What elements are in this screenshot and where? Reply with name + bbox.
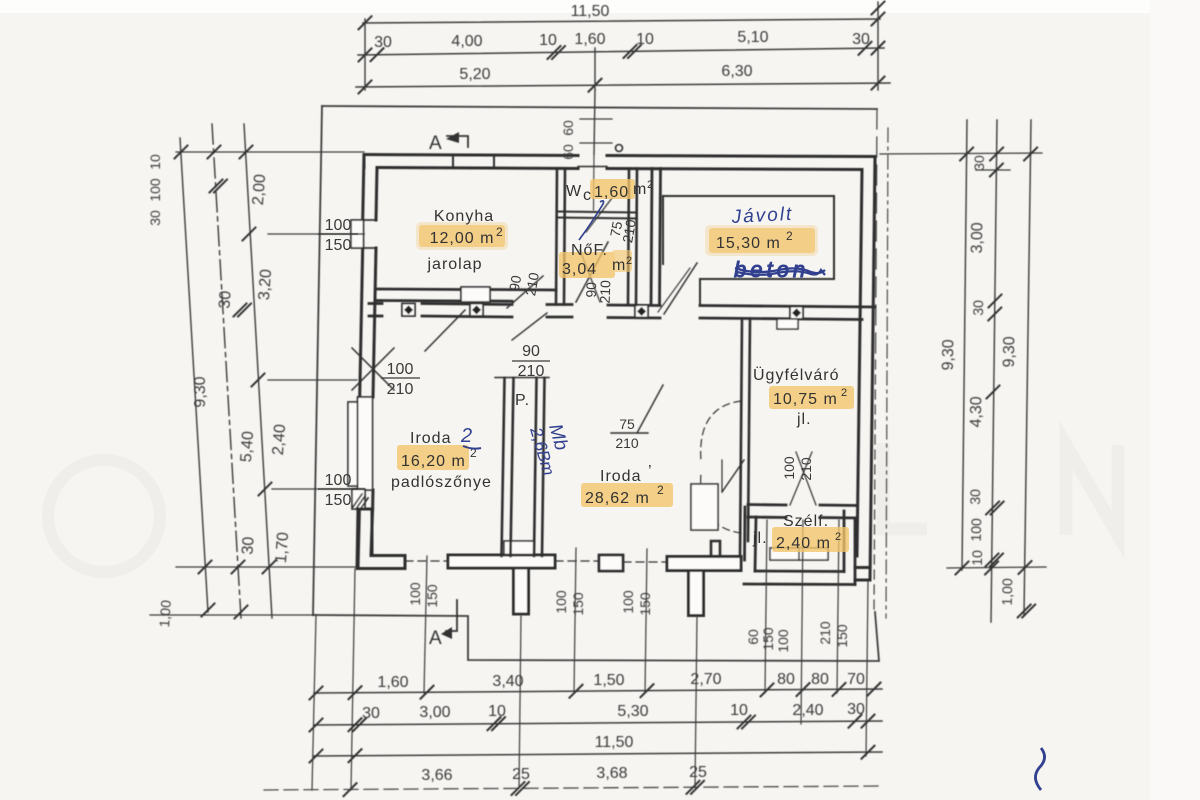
right dim block line R1: [962, 120, 967, 570]
svg-text:3,00: 3,00: [419, 704, 450, 721]
extension lines to bottom rows: [312, 520, 868, 790]
left ticks: [175, 146, 188, 159]
ugyfelvaro door swing lines bottom: [790, 452, 812, 505]
watermark letter L: [883, 443, 927, 529]
bottom dim row 3: [314, 752, 882, 756]
svg-text:1,60: 1,60: [594, 184, 629, 201]
ugyfelvaro door swing triangle: [722, 460, 744, 492]
room 15,30 left wall band: [651, 169, 661, 306]
svg-text:c: c: [583, 187, 592, 204]
chimney square 1: [402, 304, 415, 317]
svg-text:210: 210: [817, 621, 833, 645]
wall V6 (middle/ugyfelvaro wall): [740, 319, 750, 557]
svg-text:210: 210: [615, 435, 639, 451]
svg-text:100: 100: [775, 629, 791, 653]
svg-text:2,40: 2,40: [792, 702, 823, 719]
highlight 28,62: [581, 483, 673, 507]
svg-text:3,66: 3,66: [421, 767, 452, 784]
kitchen niche rect: [461, 287, 490, 302]
interior wall M (horizontal mid wall): [369, 304, 875, 320]
svg-text:2: 2: [496, 225, 503, 239]
svg-text:1,60: 1,60: [377, 674, 408, 691]
svg-text:100: 100: [325, 217, 352, 234]
svg-text:30: 30: [852, 31, 870, 48]
svg-text:3,00: 3,00: [969, 222, 987, 254]
svg-text:Szélf.: Szélf.: [783, 513, 829, 530]
svg-text:30: 30: [362, 705, 380, 722]
blue slash at WC: [579, 201, 604, 240]
svg-text:100: 100: [387, 361, 414, 378]
svg-text:100: 100: [553, 590, 569, 614]
svg-text:150: 150: [834, 624, 850, 648]
svg-text:150: 150: [760, 627, 776, 651]
svg-text:10: 10: [969, 550, 985, 566]
svg-text:Konyha: Konyha: [434, 208, 494, 225]
svg-text:5,20: 5,20: [459, 66, 490, 83]
svg-text:9,30: 9,30: [1001, 336, 1019, 368]
svg-text:2: 2: [841, 387, 847, 399]
svg-text:1,70: 1,70: [273, 531, 292, 563]
porch (Szelf) walls: [744, 507, 855, 585]
porch entry step marks: [770, 548, 828, 560]
eaves outline top: [322, 106, 877, 109]
svg-text:150: 150: [570, 592, 586, 616]
svg-text:NőF.: NőF.: [571, 242, 608, 259]
svg-text:9,30: 9,30: [192, 376, 209, 407]
bottom wall gap dashes 2: [623, 561, 667, 563]
svg-text:25: 25: [512, 766, 530, 783]
svg-text:P.: P.: [515, 392, 530, 409]
svg-text:100: 100: [620, 590, 636, 614]
interior wall V2 (middle room left wall): [534, 378, 545, 556]
highlight 15,30: [709, 228, 815, 253]
demolition cross at left room upper-left: [352, 348, 394, 390]
svg-text:Iroda: Iroda: [410, 430, 451, 447]
svg-text:60: 60: [560, 120, 576, 136]
bottom dim row 4: [264, 786, 882, 790]
svg-text:jl.: jl.: [752, 530, 768, 547]
svg-text:10: 10: [636, 31, 654, 48]
watermark letter N: [1066, 445, 1118, 535]
svg-text:1,00: 1,00: [156, 599, 174, 628]
bottom exterior wall: left stub: [357, 509, 405, 569]
bottom wall window T1: [448, 555, 555, 614]
left wall window W1: [351, 220, 377, 248]
svg-text:90: 90: [506, 274, 524, 292]
middle room door 75/210 line and swing: [611, 432, 648, 434]
NoF door swings: [576, 242, 608, 302]
top dim line 3: [356, 83, 890, 87]
svg-text:60: 60: [560, 144, 576, 160]
svg-text:10: 10: [147, 154, 163, 170]
svg-text:30: 30: [967, 489, 983, 505]
middle room dashed door arcs near right wall: [701, 401, 741, 461]
svg-text:12,00 m: 12,00 m: [430, 230, 495, 247]
section/property dash-dot line right: [886, 128, 888, 618]
bottom wall gap dashes: [555, 560, 599, 562]
top dim line 2: [358, 48, 884, 55]
svg-text:30: 30: [971, 155, 987, 171]
svg-text:5,30: 5,30: [617, 703, 648, 720]
left connectors: [176, 151, 364, 153]
svg-text:80: 80: [777, 671, 795, 688]
right ticks: [960, 148, 973, 161]
svg-text:2,40 m: 2,40 m: [776, 535, 831, 552]
kitchen to left room door swing: [425, 310, 465, 351]
svg-text:3,04: 3,04: [562, 261, 597, 278]
cabinet rect in middle room: [691, 484, 718, 530]
svg-text:2: 2: [835, 531, 841, 543]
svg-text:2,00: 2,00: [250, 173, 269, 205]
svg-text:25: 25: [689, 764, 707, 781]
WC right wall: [628, 169, 637, 306]
eaves outline right (partly dashed): [876, 109, 878, 360]
chimney square 4: [790, 307, 803, 320]
WC bottom separator: [557, 212, 637, 219]
svg-text:3,68: 3,68: [596, 765, 627, 782]
room 15,30 inner floor rectangle: [663, 196, 834, 279]
svg-text:100: 100: [325, 472, 352, 489]
svg-text:m: m: [633, 181, 647, 198]
svg-text:80: 80: [811, 671, 829, 688]
eaves outline bottom with step: [313, 612, 879, 661]
svg-text:70: 70: [847, 671, 865, 688]
svg-text:100: 100: [968, 518, 984, 542]
svg-text:10: 10: [488, 703, 506, 720]
front door threshold: [578, 166, 607, 168]
svg-text:210: 210: [597, 280, 614, 304]
svg-text:100: 100: [781, 456, 797, 480]
top dim verticals: [364, 19, 366, 90]
svg-text:1,00: 1,00: [999, 578, 1015, 606]
svg-text:30: 30: [847, 701, 865, 718]
svg-text:2: 2: [460, 425, 472, 447]
svg-text:jl.: jl.: [796, 411, 812, 428]
left dim block line B (dash-dot): [212, 124, 241, 618]
svg-text:30: 30: [147, 210, 163, 226]
eaves outline left: [313, 106, 322, 615]
bottom wall window gap sill dashes: [405, 560, 448, 562]
bottom wall small block: [599, 555, 623, 571]
svg-text:11,50: 11,50: [595, 734, 634, 751]
svg-text:150: 150: [325, 492, 352, 509]
svg-text:2: 2: [647, 179, 653, 191]
chimney square 3: [635, 305, 648, 318]
bottom dim row 1: [314, 689, 882, 693]
right dim block line R2: [991, 120, 997, 622]
svg-text:150: 150: [424, 584, 440, 608]
highlight kitchen 12,00: [419, 225, 505, 247]
svg-text:Ügyfélváró: Ügyfélváró: [753, 366, 839, 384]
top dim line 1: [363, 19, 880, 23]
highlight 16,20: [397, 445, 469, 470]
right dim block line R3: [1024, 120, 1031, 614]
highlight NoF 3,04: [559, 252, 615, 278]
svg-text:6,30: 6,30: [721, 63, 752, 80]
left wall window W3 with hatch: [352, 489, 368, 511]
bottom-right corner wall segment: [855, 568, 870, 581]
svg-text:padlószőnye: padlószőnye: [391, 474, 492, 491]
svg-text:jarolap: jarolap: [426, 256, 482, 273]
svg-text:90: 90: [522, 343, 540, 360]
svg-text:100: 100: [147, 178, 163, 202]
svg-text:m: m: [612, 257, 626, 274]
svg-text:150: 150: [637, 592, 653, 616]
bottom wall piece left of porch: [711, 541, 720, 557]
svg-text:10: 10: [730, 702, 748, 719]
left wall window W2 (tall): [348, 397, 373, 490]
door swing into room 15,30: [664, 263, 697, 314]
svg-text:A: A: [429, 628, 442, 649]
svg-text:2,40: 2,40: [270, 423, 289, 455]
svg-text:28,62 m: 28,62 m: [585, 490, 650, 507]
interior wall V1 (left room right wall): [502, 378, 514, 556]
svg-text:1,60: 1,60: [574, 31, 605, 48]
svg-text:75: 75: [619, 416, 635, 432]
WC left wall: [556, 169, 565, 305]
top wall window ticks (kitchen window): [452, 155, 454, 169]
window T1 outer sill rect: [504, 541, 534, 555]
svg-text:2: 2: [657, 483, 664, 497]
corridor door swing: [512, 313, 547, 340]
svg-text:30: 30: [970, 300, 986, 316]
right exterior wall: [857, 157, 875, 581]
svg-text:11,50: 11,50: [571, 3, 610, 20]
kitchen door swing: [507, 276, 543, 308]
svg-text:30: 30: [239, 536, 257, 555]
right connectors: [880, 153, 1042, 154]
svg-text:210: 210: [518, 363, 545, 380]
svg-text:Jávolt: Jávolt: [730, 204, 794, 228]
mini chain above WC: [594, 90, 595, 154]
svg-text:2,70: 2,70: [690, 671, 721, 688]
svg-text:210: 210: [798, 457, 814, 481]
watermark circle: [48, 460, 160, 572]
left dim block line A: [180, 138, 208, 612]
corridor P threshold: [495, 377, 549, 379]
svg-text:2: 2: [626, 255, 632, 267]
svg-text:9,30: 9,30: [940, 339, 958, 371]
svg-text:4,00: 4,00: [451, 33, 482, 50]
svg-text:10,75 m: 10,75 m: [773, 391, 838, 408]
svg-text:100: 100: [407, 582, 423, 606]
svg-text:3,20: 3,20: [256, 268, 275, 300]
svg-text:1,50: 1,50: [593, 672, 624, 689]
highlight 2,40: [772, 527, 849, 552]
svg-text:Iroda: Iroda: [600, 468, 641, 485]
bottom wall window T2: [667, 557, 741, 616]
svg-text:210: 210: [387, 381, 414, 398]
left dim block line C: [244, 124, 272, 618]
svg-text:30: 30: [374, 34, 392, 51]
svg-text:16,20 m: 16,20 m: [401, 453, 466, 470]
svg-text:4,30: 4,30: [968, 396, 986, 428]
highlight 10,75: [769, 386, 854, 409]
svg-text:W: W: [566, 183, 582, 200]
svg-text:5,40: 5,40: [238, 430, 257, 462]
svg-text:15,30 m: 15,30 m: [716, 235, 781, 252]
highlight WC 1,60: [590, 179, 635, 199]
svg-text:2: 2: [786, 229, 793, 243]
left exterior wall (with window gaps): [358, 155, 377, 569]
blue Mb 2,6Bm rotated: [526, 419, 577, 478]
svg-text:150: 150: [325, 237, 352, 254]
ugyfelvaro bottom wall with door opening: [748, 505, 857, 519]
svg-text:30: 30: [216, 290, 234, 309]
svg-text:60: 60: [745, 629, 761, 645]
svg-text:10: 10: [539, 32, 557, 49]
svg-text:A: A: [429, 133, 442, 154]
bottom dim row 2: [314, 721, 882, 725]
ugyfelvaro top wall niche: [777, 319, 798, 329]
kitchen bottom wall band: [377, 289, 556, 301]
front door circle mark: [616, 145, 623, 152]
chimney square 2: [470, 304, 483, 317]
svg-text:3,40: 3,40: [492, 673, 523, 690]
svg-text:5,10: 5,10: [737, 29, 768, 46]
blue squiggle bottom right: [1035, 748, 1044, 790]
top exterior wall: [364, 155, 875, 170]
svg-text:’: ’: [648, 463, 653, 480]
